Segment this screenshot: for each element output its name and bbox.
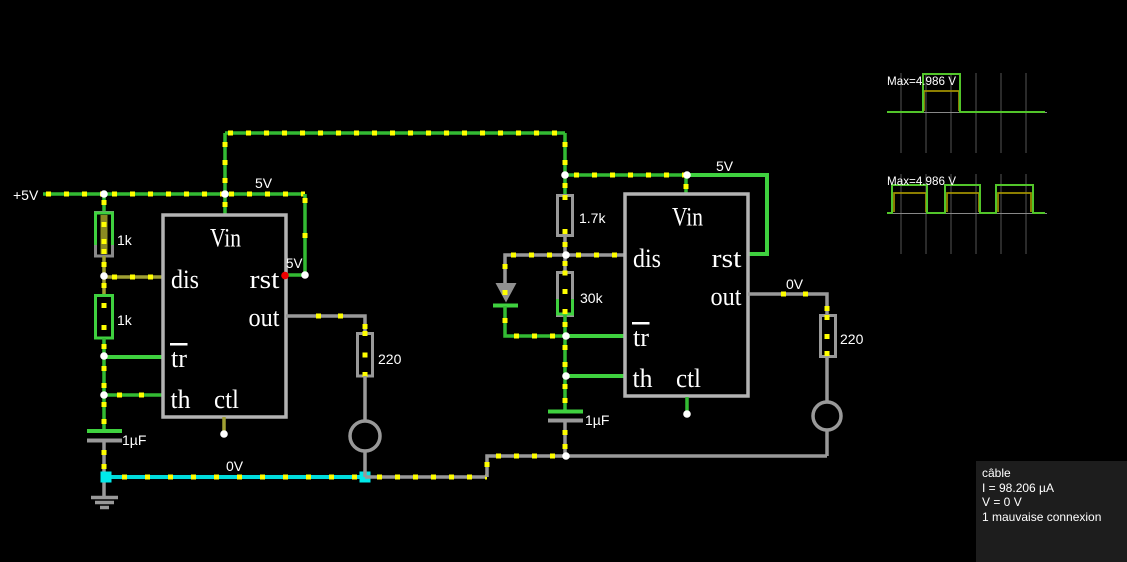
label R3 220 xyxy=(378,351,402,367)
label info cable xyxy=(982,466,1011,480)
label U1 out xyxy=(249,303,281,332)
svg-text:tr: tr xyxy=(633,323,649,352)
node tr1 xyxy=(100,352,108,360)
svg-text:1k: 1k xyxy=(117,312,133,328)
IC U1 555 xyxy=(163,215,286,417)
svg-text:220: 220 xyxy=(378,351,402,367)
label 5V circuit 2 xyxy=(716,158,734,174)
node dis1 xyxy=(100,272,108,280)
label U1 th xyxy=(171,385,191,414)
label scope 1 max xyxy=(887,76,956,88)
wire +5V rail to node B xyxy=(104,192,225,196)
wire 5V drop vertical to rst U1 xyxy=(288,194,305,275)
wire 0V bus step xyxy=(485,456,567,477)
wire ctl pin U2 xyxy=(685,397,689,412)
svg-text:câble: câble xyxy=(982,466,1011,480)
output M1 (circle) xyxy=(350,421,380,451)
node th2 xyxy=(562,372,570,380)
wire top rail horizontal xyxy=(225,131,565,135)
node bus2 xyxy=(562,452,570,460)
node B (top rail junction) xyxy=(221,190,229,198)
svg-text:1µF: 1µF xyxy=(122,432,146,448)
wire R2 to node tr1 xyxy=(102,338,107,356)
svg-text:Vin: Vin xyxy=(672,203,703,232)
svg-text:30k: 30k xyxy=(580,290,604,306)
svg-text:5V: 5V xyxy=(286,256,303,271)
svg-text:0V: 0V xyxy=(786,276,804,292)
node dis2 xyxy=(562,251,570,259)
ground xyxy=(91,498,118,508)
label R5 30k xyxy=(580,290,604,306)
wire dis2 branch left xyxy=(503,255,567,284)
resistor R2 1k xyxy=(96,296,113,339)
label U2 rst xyxy=(712,244,743,273)
node ctl U2 endpoint xyxy=(683,410,691,418)
wire +5V rail left segment xyxy=(43,192,104,196)
svg-text:ctl: ctl xyxy=(214,385,239,414)
wire D1 cathode to node tr2 xyxy=(503,290,567,336)
label U2 out xyxy=(711,282,743,311)
wire th pin U2 xyxy=(566,374,625,378)
label C2 1uF xyxy=(585,412,609,428)
label U1 Vin xyxy=(210,224,241,253)
wire node dis2 to resistor R5 xyxy=(563,255,568,272)
svg-text:out: out xyxy=(711,282,743,311)
wire 0V bus cyan xyxy=(106,475,365,479)
capacitor C1 1uF xyxy=(87,431,122,441)
label 0V at out U2 xyxy=(786,276,804,292)
wire 5V to rst U2 xyxy=(687,175,767,254)
node A (+5V junction) xyxy=(100,190,108,198)
label 5V top left xyxy=(255,175,273,191)
label R6 220 xyxy=(840,331,864,347)
label U2 dis xyxy=(633,244,661,273)
wire tr pin U1 xyxy=(104,355,163,359)
node rst U1 wire end xyxy=(301,271,309,279)
wire node th1 to capacitor C1 xyxy=(102,395,107,429)
wire R6 to output M2 xyxy=(825,357,829,402)
label R1 1k xyxy=(117,232,133,248)
wire 0V bus right segment xyxy=(566,454,827,458)
wire tr pin U2 xyxy=(566,334,625,338)
node ctl U1 endpoint xyxy=(220,430,228,438)
label U2 tr xyxy=(632,322,650,352)
label scope 2 max xyxy=(887,176,956,188)
svg-text:Max=4.986 V: Max=4.986 V xyxy=(887,176,956,188)
diode D1 xyxy=(493,283,518,306)
label C1 1uF xyxy=(122,432,146,448)
svg-text:th: th xyxy=(633,364,653,393)
scope 2 trace green xyxy=(887,185,1045,213)
svg-text:tr: tr xyxy=(171,344,187,373)
scope 1 trace yellow xyxy=(924,91,959,111)
svg-text:5V: 5V xyxy=(716,158,734,174)
wire ground stub xyxy=(102,477,106,497)
svg-text:th: th xyxy=(171,385,191,414)
svg-text:1µF: 1µF xyxy=(585,412,609,428)
label info warning xyxy=(982,510,1101,524)
wire C1 to ground node xyxy=(102,442,107,477)
label U1 ctl xyxy=(214,385,239,414)
IC U2 555 xyxy=(625,194,748,396)
svg-text:rst: rst xyxy=(712,244,743,273)
wire node dis1 to resistor R2 xyxy=(102,277,107,295)
wire th pin U1 xyxy=(104,393,163,398)
label 0V bus xyxy=(226,458,244,474)
wire 5V to rst drop horizontal xyxy=(225,192,305,196)
svg-text:1k: 1k xyxy=(117,232,133,248)
wire R1 to node dis1 xyxy=(102,256,107,277)
wire R4 to node dis2 xyxy=(563,235,568,255)
wire dis pin U2 xyxy=(566,253,625,257)
resistor R6 220 xyxy=(821,315,836,357)
wire R3 to output M1 xyxy=(363,376,367,421)
node th1 xyxy=(100,391,108,399)
svg-text:+5V: +5V xyxy=(13,187,39,203)
wire M2 to 0V bus xyxy=(825,430,829,456)
resistor R4 1.7k xyxy=(558,195,573,236)
wire Vin pin U2 xyxy=(684,175,689,194)
label info current xyxy=(982,481,1054,495)
svg-text:dis: dis xyxy=(633,244,661,273)
svg-text:0V: 0V xyxy=(226,458,244,474)
label 5V at rst U1 xyxy=(286,256,303,271)
label R4 1.7k xyxy=(579,210,606,226)
wire Vin pin U1 xyxy=(223,194,228,215)
wire out pin U1 xyxy=(286,314,368,334)
wire node B to resistor R1 xyxy=(102,194,107,212)
resistor R3 220 xyxy=(358,331,373,377)
resistor R1 1k xyxy=(96,213,113,257)
wire M1 to 0V bus xyxy=(363,451,367,477)
node ground bus left (cyan square) xyxy=(101,472,112,483)
svg-text:ctl: ctl xyxy=(676,364,701,393)
node 5V rail 2 right xyxy=(683,171,691,179)
wire ctl pin U1 xyxy=(222,417,226,432)
node rst U1 bad connection (red) xyxy=(281,272,289,280)
output M2 (circle) xyxy=(813,402,841,430)
svg-text:V = 0 V: V = 0 V xyxy=(982,495,1022,509)
label info voltage xyxy=(982,495,1022,509)
label U2 ctl xyxy=(676,364,701,393)
node ground bus mid (cyan square) xyxy=(360,472,371,483)
capacitor C2 1uF xyxy=(548,412,583,421)
wire top rail riser at x=225 xyxy=(223,133,227,194)
wire C2 to 0V bus xyxy=(563,422,568,456)
node 5V rail 2 left xyxy=(561,171,569,179)
label U1 tr xyxy=(170,343,188,373)
svg-text:5V: 5V xyxy=(255,175,273,191)
wire node tr1 to node th1 xyxy=(102,356,107,395)
wire node tr2 to node th2 xyxy=(563,336,568,376)
wire 1.7k feed xyxy=(563,175,568,195)
label +5V xyxy=(13,187,39,203)
wire top rail drop at x=565 xyxy=(563,133,567,175)
svg-text:220: 220 xyxy=(840,331,864,347)
wire 0V bus gray segment xyxy=(365,475,487,479)
scope 2 grid xyxy=(887,174,1047,254)
svg-text:1 mauvaise connexion: 1 mauvaise connexion xyxy=(982,510,1101,524)
svg-text:rst: rst xyxy=(250,265,281,294)
wire 5V rail circuit 2 xyxy=(565,173,687,177)
scope 2 trace yellow xyxy=(894,193,1031,212)
svg-text:dis: dis xyxy=(171,265,199,294)
svg-text:I = 98.206 µA: I = 98.206 µA xyxy=(982,481,1054,495)
svg-text:1.7k: 1.7k xyxy=(579,210,606,226)
resistor R5 30k xyxy=(558,271,573,316)
info panel xyxy=(976,461,1127,562)
node tr2 xyxy=(562,332,570,340)
label U2 Vin xyxy=(672,203,703,232)
svg-text:Vin: Vin xyxy=(210,224,241,253)
label R2 1k xyxy=(117,312,133,328)
wire node th2 to capacitor C2 xyxy=(563,376,568,410)
svg-text:out: out xyxy=(249,303,281,332)
wire dis pin U1 xyxy=(104,275,163,279)
wire out pin U2 xyxy=(748,292,830,316)
scope 1 trace green xyxy=(887,74,1045,112)
label U1 rst xyxy=(250,265,281,294)
scope 1 grid xyxy=(887,73,1047,153)
wire R5 to node tr2 xyxy=(563,315,568,336)
svg-text:Max=4.986 V: Max=4.986 V xyxy=(887,76,956,88)
label U2 th xyxy=(633,364,653,393)
label U1 dis xyxy=(171,265,199,294)
